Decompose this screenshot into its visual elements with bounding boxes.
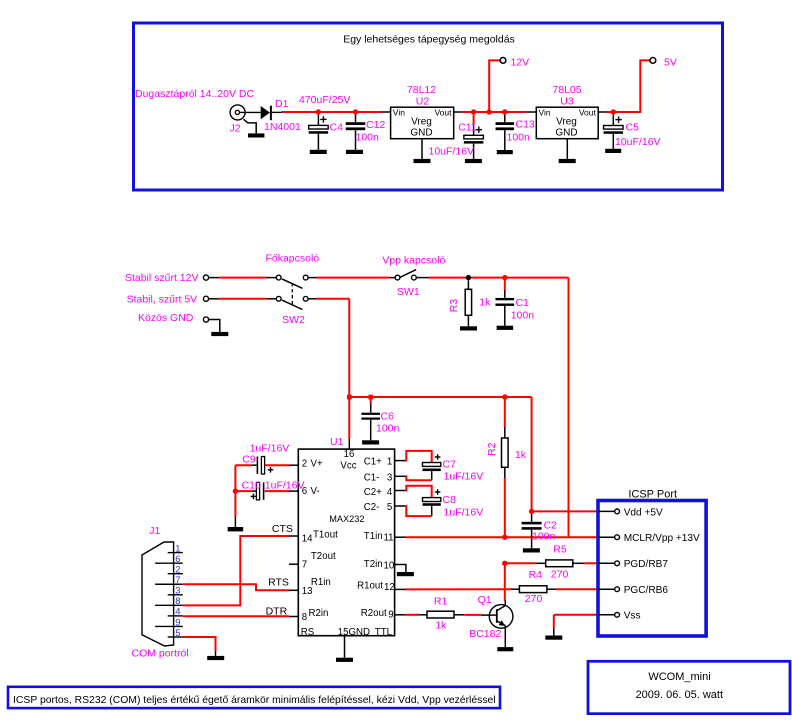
- svg-text:Vpp kapcsoló: Vpp kapcsoló: [382, 255, 445, 267]
- wire SW2 pole A to SW1: [308, 277, 316, 279]
- svg-text:5: 5: [175, 628, 180, 639]
- capacitor C8: [405, 486, 431, 498]
- pin 7 of J1: [155, 583, 183, 585]
- svg-text:DTR: DTR: [266, 606, 288, 618]
- capacitor C6: [370, 397, 372, 404]
- power-supply frame box: [134, 23, 723, 190]
- wire R1 to Q1 base: [464, 614, 481, 616]
- svg-text:V-: V-: [311, 486, 320, 497]
- ground at J1 pin5: [207, 656, 224, 660]
- svg-text:R5: R5: [553, 544, 567, 556]
- svg-text:11: 11: [384, 533, 394, 544]
- svg-text:GND: GND: [410, 128, 432, 139]
- junction at 12V riser: [487, 109, 492, 114]
- svg-text:470uF/25V: 470uF/25V: [299, 94, 350, 106]
- switch SW1 Vpp kapcsoló: [395, 275, 400, 280]
- svg-text:R2: R2: [486, 442, 498, 456]
- svg-text:100n: 100n: [511, 309, 535, 321]
- svg-text:4: 4: [175, 607, 180, 618]
- wire Q1 collector: [504, 563, 506, 601]
- pin 8 of J1: [155, 604, 183, 606]
- pin 3 C1-: [395, 475, 406, 477]
- capacitor C2: [531, 514, 533, 522]
- svg-text:CTS: CTS: [272, 523, 293, 535]
- svg-text:4: 4: [387, 487, 393, 498]
- svg-text:MCLR/Vpp +13V: MCLR/Vpp +13V: [624, 533, 700, 544]
- wire T2in to ground: [404, 565, 407, 573]
- wire U2 Vout to U3 Vin: [454, 111, 463, 113]
- ground at J2: [248, 133, 264, 137]
- ground at R3: [460, 326, 477, 330]
- description frame box: [8, 687, 500, 708]
- svg-text:Stabil szűrt 12V: Stabil szűrt 12V: [125, 272, 199, 284]
- pin 5 C2-: [395, 505, 406, 507]
- svg-text:1k: 1k: [479, 296, 491, 308]
- svg-text:C9: C9: [242, 453, 256, 465]
- svg-text:7: 7: [175, 575, 180, 586]
- node 12V terminal: [500, 58, 506, 64]
- junction at C10: [233, 488, 238, 493]
- svg-text:BC182: BC182: [469, 628, 501, 640]
- junction at C5: [611, 109, 616, 114]
- pin 4 of J1: [168, 615, 183, 617]
- svg-text:C6: C6: [381, 410, 395, 422]
- ground at T2in: [397, 572, 414, 576]
- svg-text:1uF/16V: 1uF/16V: [265, 480, 305, 492]
- svg-text:C10: C10: [242, 480, 261, 492]
- junction collector at R5: [502, 561, 507, 566]
- svg-text:R2out: R2out: [361, 608, 387, 619]
- capacitor C12: [355, 115, 357, 123]
- wire CTS (J1 pin8 to T1out): [183, 536, 289, 605]
- wire Vss to ground: [554, 614, 598, 616]
- pin 12 R1out: [395, 588, 406, 590]
- svg-text:9: 9: [175, 617, 180, 628]
- svg-text:1: 1: [387, 456, 392, 467]
- wire J1 pin5 to ground: [183, 637, 216, 651]
- wire SW2 pole B to Vcc rail: [308, 298, 316, 300]
- node 5V terminal: [650, 58, 656, 64]
- svg-text:C7: C7: [443, 459, 457, 471]
- title block frame box: [588, 661, 790, 713]
- svg-text:1N4001: 1N4001: [264, 121, 301, 133]
- ground at C11: [465, 159, 482, 163]
- wire Vpp vertical: [568, 278, 570, 538]
- capacitor C13: [504, 115, 506, 123]
- svg-text:3: 3: [175, 586, 180, 597]
- node MCLR/Vpp +13V pin: [598, 536, 615, 538]
- svg-text:16: 16: [344, 449, 355, 460]
- svg-text:10uF/16V: 10uF/16V: [429, 146, 475, 158]
- junction rail at Vcc drop: [347, 395, 352, 400]
- pin 5 of J1: [168, 636, 183, 638]
- wire Vpp net SW1 to MCLR corner: [416, 277, 428, 279]
- svg-text:2009. 06. 05. watt: 2009. 06. 05. watt: [636, 689, 723, 701]
- connector J1 (DB9): [142, 542, 174, 646]
- svg-text:5: 5: [387, 502, 392, 513]
- junction rail at C6: [368, 395, 373, 400]
- svg-text:1uF/16V: 1uF/16V: [250, 442, 290, 454]
- wire R5 to PGD/RB7: [584, 562, 598, 564]
- svg-text:ICSP Port: ICSP Port: [628, 489, 677, 501]
- svg-text:12: 12: [384, 582, 395, 593]
- svg-text:8: 8: [302, 612, 307, 623]
- wire Vdd row to ICSP: [532, 510, 598, 512]
- svg-text:1uF/16V: 1uF/16V: [444, 507, 484, 519]
- svg-text:Stabil, szűrt 5V: Stabil, szűrt 5V: [127, 293, 198, 305]
- svg-text:R3: R3: [448, 299, 460, 313]
- capacitor C9: [235, 464, 252, 466]
- pin 3 of J1: [168, 594, 183, 596]
- svg-text:100n: 100n: [532, 531, 556, 543]
- regulator U2 78L12: [391, 107, 454, 139]
- svg-text:12V: 12V: [511, 56, 530, 68]
- svg-text:C12: C12: [366, 119, 385, 131]
- switch SW2 (DPST): [276, 275, 281, 280]
- wire R2out to R1: [405, 614, 419, 616]
- ground at C5: [605, 149, 621, 153]
- svg-text:V+: V+: [311, 458, 323, 469]
- wire Közös GND to ground: [209, 320, 220, 332]
- pin 13 R1in: [289, 589, 298, 591]
- svg-text:R1: R1: [434, 595, 448, 607]
- svg-text:Vin: Vin: [539, 107, 551, 117]
- diode D1: [261, 106, 270, 119]
- svg-text:78L05: 78L05: [552, 84, 581, 96]
- svg-text:10uF/16V: 10uF/16V: [615, 136, 661, 148]
- svg-text:5V: 5V: [664, 56, 677, 68]
- junction rail at R2: [502, 394, 507, 399]
- svg-text:SW1: SW1: [397, 286, 420, 298]
- node Stabil szűrt 12V terminal: [203, 275, 208, 280]
- capacitor C4: [317, 115, 319, 126]
- svg-text:TTL: TTL: [375, 627, 393, 638]
- pin 7 T2out: [289, 563, 298, 565]
- wire U3 GND pin: [566, 139, 568, 159]
- ground at C2: [523, 548, 540, 552]
- svg-text:Vdd +5V: Vdd +5V: [624, 507, 663, 518]
- svg-text:RS: RS: [301, 627, 315, 638]
- ground at C12: [346, 150, 363, 154]
- wire U1 GND pin 15: [344, 636, 346, 658]
- svg-text:Egy lehetséges tápegység megol: Egy lehetséges tápegység megoldás: [343, 34, 515, 46]
- svg-text:U3: U3: [560, 95, 574, 107]
- svg-text:PGD/RB7: PGD/RB7: [624, 559, 669, 570]
- pin 14 T1out: [289, 535, 298, 537]
- wire DTR (J1 pin4 to R2in): [183, 615, 289, 617]
- svg-text:T1out: T1out: [313, 530, 338, 541]
- svg-text:2: 2: [175, 565, 180, 576]
- wire T1in to MCLR/Vpp net: [405, 536, 568, 538]
- svg-text:100n: 100n: [356, 132, 380, 144]
- wire U2 GND pin: [421, 139, 423, 159]
- svg-text:10: 10: [384, 560, 395, 571]
- wire collector to R5: [505, 562, 536, 564]
- svg-text:U2: U2: [416, 95, 430, 107]
- wire V+/V- caps to ground: [234, 465, 236, 516]
- svg-text:1k: 1k: [515, 449, 527, 461]
- resistor R1: [427, 611, 454, 618]
- junction T1in at collector: [502, 535, 507, 540]
- wire J2 sleeve to ground: [244, 119, 257, 133]
- svg-text:R1in: R1in: [311, 577, 331, 588]
- pin 9 of J1: [155, 625, 183, 627]
- wire 5V rail: [349, 396, 531, 398]
- transistor Q1: [489, 605, 513, 629]
- ICSP port frame box: [598, 501, 706, 637]
- ground at U3: [559, 159, 576, 163]
- wire 5V riser: [613, 60, 650, 112]
- resistor R2: [504, 397, 506, 427]
- svg-text:J1: J1: [149, 525, 160, 537]
- svg-text:Vout: Vout: [579, 107, 597, 117]
- svg-text:GND: GND: [555, 128, 577, 139]
- junction at C4: [316, 109, 321, 114]
- svg-text:T2in: T2in: [364, 559, 383, 570]
- wire 12V riser: [489, 60, 500, 112]
- svg-text:2: 2: [302, 458, 307, 469]
- svg-text:C5: C5: [626, 122, 640, 134]
- wire U3 Vout to 5V: [598, 111, 608, 113]
- pin 2 V+: [289, 464, 298, 466]
- svg-text:RTS: RTS: [268, 576, 289, 588]
- wire R1out to R4: [405, 588, 511, 590]
- resistor R5: [546, 560, 573, 567]
- svg-text:C1-: C1-: [364, 473, 380, 484]
- pin 1 of J1: [168, 552, 183, 554]
- svg-text:COM portról: COM portról: [132, 648, 189, 660]
- svg-text:100n: 100n: [376, 423, 400, 435]
- capacitor C10: [235, 490, 252, 492]
- svg-text:MAX232: MAX232: [329, 514, 364, 524]
- svg-text:PGC/RB6: PGC/RB6: [624, 585, 669, 596]
- junction Vdd at C2: [529, 509, 534, 514]
- svg-text:SW2: SW2: [282, 314, 305, 326]
- ground at U2: [414, 159, 431, 163]
- svg-text:U1: U1: [330, 436, 344, 448]
- junction at C12: [353, 109, 358, 114]
- svg-text:C4: C4: [330, 122, 344, 134]
- ground at C9/C10: [228, 527, 244, 531]
- svg-text:Q1: Q1: [478, 594, 492, 606]
- svg-text:100n: 100n: [507, 132, 531, 144]
- ground at C1: [497, 326, 514, 330]
- svg-text:Vreg: Vreg: [411, 116, 432, 127]
- svg-text:T2out: T2out: [311, 551, 336, 562]
- svg-text:R1out: R1out: [357, 580, 383, 591]
- junction at C11: [471, 109, 476, 114]
- capacitor C7: [405, 451, 431, 463]
- svg-text:7: 7: [302, 560, 307, 571]
- pin 2 of J1: [168, 573, 183, 575]
- svg-text:ICSP portos, RS232 (COM) telje: ICSP portos, RS232 (COM) teljes értékű é…: [13, 695, 496, 706]
- svg-text:270: 270: [525, 593, 543, 605]
- ground at C4: [310, 150, 327, 154]
- svg-text:C8: C8: [443, 494, 457, 506]
- svg-text:C1+: C1+: [364, 456, 382, 467]
- svg-text:Vcc: Vcc: [340, 461, 356, 472]
- svg-text:T1in: T1in: [364, 531, 383, 542]
- svg-text:Vreg: Vreg: [556, 116, 577, 127]
- svg-text:Vin: Vin: [393, 107, 405, 117]
- svg-text:J2: J2: [230, 123, 241, 135]
- ground at C13: [497, 150, 513, 154]
- wire VIN bus (diode to U2): [272, 111, 282, 113]
- node PGD/RB7 pin: [598, 562, 615, 564]
- svg-text:D1: D1: [275, 98, 289, 110]
- wire Q1 emitter to ground: [504, 626, 506, 648]
- svg-text:Főkapcsoló: Főkapcsoló: [265, 253, 319, 265]
- wire 12V input to SW2: [209, 277, 219, 279]
- ground at C6: [362, 440, 379, 444]
- node Vdd +5V pin: [598, 510, 615, 512]
- connector J2: [230, 105, 245, 120]
- ground at Q1: [497, 647, 513, 651]
- svg-text:3: 3: [387, 473, 392, 484]
- resistor R3: [466, 275, 471, 280]
- svg-text:R4: R4: [529, 569, 543, 581]
- svg-text:C13: C13: [516, 119, 535, 131]
- svg-text:C2-: C2-: [364, 502, 380, 513]
- svg-text:Vss: Vss: [624, 611, 641, 622]
- svg-text:R2in: R2in: [309, 608, 329, 619]
- wire Vcc pin 16 drop: [348, 397, 350, 439]
- pin 9 R2out: [395, 614, 406, 616]
- svg-text:C1: C1: [516, 297, 530, 309]
- pin 8 R2in: [289, 616, 298, 618]
- svg-text:78L12: 78L12: [407, 84, 436, 96]
- capacitor C5: [612, 115, 614, 126]
- pin 6 V-: [289, 490, 298, 492]
- op-amp U1 MAX232 body: [298, 449, 394, 636]
- svg-text:9: 9: [388, 610, 393, 621]
- pin 11 T1in: [395, 536, 406, 538]
- pin 4 C2+: [395, 490, 406, 492]
- ground at Vss: [545, 636, 562, 640]
- node Stabil szűrt 5V terminal: [203, 296, 208, 301]
- svg-text:Dugasztápról 14..20V DC: Dugasztápról 14..20V DC: [135, 88, 254, 100]
- node PGC/RB6 pin: [598, 588, 615, 590]
- svg-text:8: 8: [175, 596, 180, 607]
- ground at U1: [336, 658, 353, 662]
- svg-text:Vout: Vout: [434, 107, 452, 117]
- svg-text:6: 6: [175, 554, 180, 565]
- ground at Közös GND: [211, 332, 228, 336]
- pin 6 of J1: [155, 562, 183, 564]
- svg-text:Közös GND: Közös GND: [138, 312, 194, 324]
- regulator U3 78L05: [536, 107, 598, 139]
- svg-text:1uF/16V: 1uF/16V: [444, 470, 484, 482]
- capacitor C1: [502, 275, 507, 280]
- node Közös GND terminal: [203, 317, 208, 322]
- svg-text:C11: C11: [458, 121, 477, 133]
- resistor R4: [519, 586, 547, 593]
- junction at C13: [502, 109, 507, 114]
- wire 5V input to SW2: [209, 298, 219, 300]
- pin 10 T2in: [395, 564, 406, 566]
- wire RTS (J1 pin7 to R1in): [183, 584, 289, 590]
- wire R4 to PGC/RB6: [556, 588, 598, 590]
- svg-text:1k: 1k: [435, 619, 447, 631]
- svg-text:14: 14: [302, 534, 313, 545]
- svg-text:C2+: C2+: [364, 487, 382, 498]
- svg-text:1: 1: [175, 543, 180, 554]
- node Vss pin: [598, 614, 615, 616]
- svg-text:270: 270: [551, 569, 569, 581]
- svg-text:15GND: 15GND: [338, 627, 370, 638]
- svg-text:WCOM_mini: WCOM_mini: [648, 671, 710, 683]
- capacitor C11: [473, 115, 475, 124]
- pin 1 C1+: [395, 460, 406, 462]
